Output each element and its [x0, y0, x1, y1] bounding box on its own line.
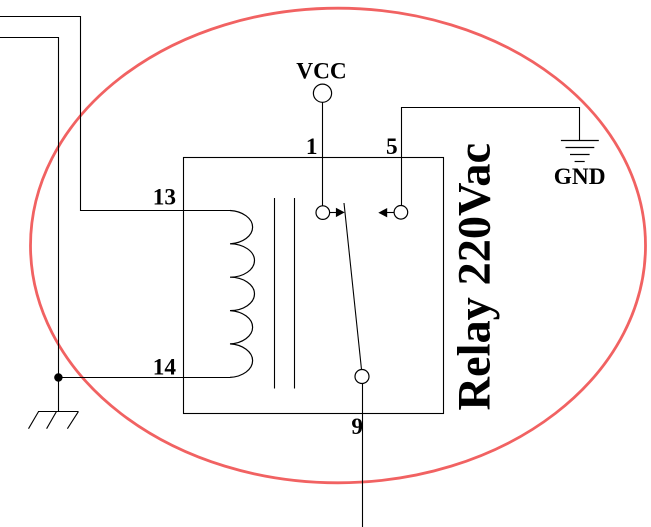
relay U1 box [184, 158, 444, 414]
relay coil [230, 211, 255, 378]
wire: left input to relay pin 13 [0, 17, 230, 211]
pin 9 terminal [355, 370, 369, 384]
svg-text:1: 1 [306, 134, 318, 160]
VCC power symbol [313, 84, 331, 102]
junction dot [54, 373, 62, 381]
fixed contact arrow [378, 208, 394, 217]
pin 5 terminal [394, 206, 408, 220]
wire: node to relay pin 14 [59, 377, 231, 379]
ground (chassis) [29, 412, 79, 429]
wire: left input down to ground node [0, 38, 59, 412]
svg-text:5: 5 [386, 134, 398, 160]
ground GND symbol [561, 141, 599, 162]
switch arm [344, 203, 362, 370]
svg-text:13: 13 [153, 185, 176, 211]
svg-text:14: 14 [153, 354, 177, 380]
wire: VCC to pin 1 [322, 102, 324, 206]
svg-text:GND: GND [554, 164, 606, 190]
wire: pin 9 output [362, 384, 364, 527]
svg-text:VCC: VCC [296, 59, 346, 85]
svg-text:Relay 220Vac: Relay 220Vac [450, 143, 501, 411]
svg-text:9: 9 [351, 414, 363, 440]
pin 1 terminal [316, 206, 330, 220]
wire: pin 5 to GND [402, 108, 580, 206]
relay core [275, 198, 295, 389]
moving contact arrow [330, 208, 345, 217]
